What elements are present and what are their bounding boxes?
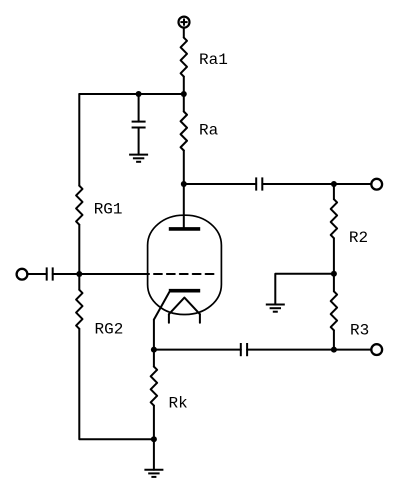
ground (R2/R3 node) <box>266 305 285 312</box>
wire mid node to R3 <box>333 274 335 292</box>
wire cap to ground <box>138 128 140 155</box>
wire RG1 to grid node <box>78 225 80 290</box>
port OUT lower <box>371 344 382 355</box>
wire top horizontal <box>79 93 184 95</box>
svg-text:RG2: RG2 <box>95 320 124 338</box>
junction dot bypass tap <box>136 91 142 97</box>
resistor Ra1 <box>181 38 187 77</box>
tube heater filament <box>169 298 200 315</box>
wire cap to upper output <box>262 183 371 185</box>
tube cathode bar <box>169 289 200 293</box>
capacitor bypass <box>132 122 146 128</box>
tube anode lead <box>183 184 185 229</box>
svg-text:R2: R2 <box>349 229 368 247</box>
junction dot lower output <box>331 347 337 353</box>
junction dot Ra1/Ra <box>181 91 187 97</box>
tube anode plate <box>169 227 200 231</box>
svg-text:Ra1: Ra1 <box>199 51 228 69</box>
tube heater pin right <box>199 314 201 323</box>
port IN <box>17 269 28 280</box>
junction dot bottom <box>151 436 157 442</box>
wire node to bypass cap <box>138 94 140 122</box>
junction dot grid node <box>76 271 82 277</box>
ground (bypass) <box>129 155 148 162</box>
resistor R3 <box>331 291 337 330</box>
wire mid node to ground corner <box>275 274 334 305</box>
tube heater pin left <box>168 314 170 323</box>
wire R2 to mid node <box>333 238 335 274</box>
junction dot cathode <box>151 347 157 353</box>
tube cathode lead diagonal <box>154 292 169 319</box>
resistor Rk <box>151 367 157 406</box>
wire cathode rail <box>153 320 155 367</box>
capacitor upper coupling <box>256 177 262 190</box>
tube V1 envelope <box>148 215 222 314</box>
tube grid dashes <box>148 273 217 275</box>
svg-text:R3: R3 <box>350 322 369 340</box>
wire supply to Ra1 <box>183 28 185 37</box>
wire Ra to anode node <box>183 151 185 185</box>
wire output node to R2 <box>333 184 335 199</box>
wire cap to grid node <box>53 273 80 275</box>
supply terminal + <box>179 17 190 28</box>
ground (cathode) <box>144 470 163 477</box>
wire left rail top <box>78 94 80 186</box>
svg-text:Ra: Ra <box>199 121 219 139</box>
wire cathode node to lower cap <box>154 349 241 351</box>
junction dot R2/R3 <box>331 271 337 277</box>
capacitor lower coupling <box>241 343 247 356</box>
resistor RG1 <box>76 186 82 225</box>
wire anode node to coupling cap <box>184 183 256 185</box>
wire left rail bottom <box>79 329 154 440</box>
wire R3 to lower output wire <box>333 330 335 349</box>
resistor RG2 <box>76 290 82 329</box>
junction dot anode <box>181 181 187 187</box>
wire input port to cap <box>27 273 47 275</box>
wire node to Ra <box>183 94 185 112</box>
wire grid node to tube <box>79 273 147 275</box>
port OUT upper <box>371 179 382 190</box>
wire bottom node to ground <box>153 439 155 469</box>
wire Ra1 to node <box>183 77 185 94</box>
resistor R2 <box>331 199 337 238</box>
wire lower cap to output <box>247 349 371 351</box>
resistor Ra <box>181 112 187 151</box>
capacitor input coupling <box>47 267 53 280</box>
wire Rk to bottom node <box>153 406 155 440</box>
junction dot upper output <box>331 181 337 187</box>
svg-text:RG1: RG1 <box>94 200 123 218</box>
svg-text:Rk: Rk <box>169 395 188 413</box>
